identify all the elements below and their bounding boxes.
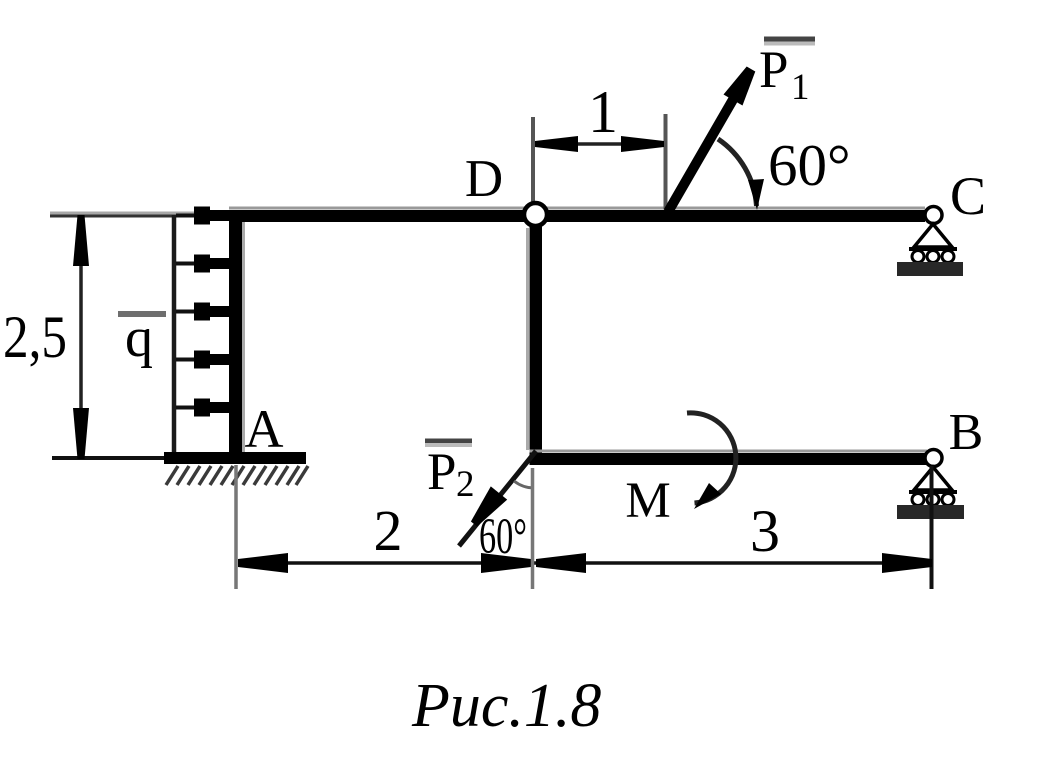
60 degree arc at P2: [514, 481, 534, 488]
svg-text:60°: 60°: [768, 132, 851, 198]
bottom dim arrow at A pointing left: [238, 553, 288, 573]
moment M arrowhead: [694, 483, 721, 509]
load arrow 2: [176, 262, 204, 266]
dimension 1 left arrowhead: [535, 136, 578, 152]
support C: pin circle: [925, 207, 942, 224]
svg-text:M: M: [625, 473, 670, 529]
svg-text:3: 3: [750, 498, 780, 564]
extension line above D for dimension 1: [531, 117, 535, 202]
svg-text:A: A: [245, 399, 284, 459]
svg-text:D: D: [465, 150, 503, 208]
dimension 1 right arrowhead: [621, 136, 664, 152]
label P1 with overbar: [764, 37, 815, 42]
svg-text:1: 1: [791, 67, 810, 108]
bottom dim arrow left of D pointing right: [481, 553, 531, 573]
ground hatching: [166, 466, 308, 485]
svg-text:Рис.1.8: Рис.1.8: [411, 672, 601, 740]
support B: base line: [909, 490, 957, 494]
dimension 2,5 upper arrowhead: [73, 215, 89, 266]
svg-text:1: 1: [588, 79, 618, 145]
svg-text:P: P: [427, 443, 456, 501]
svg-text:P: P: [759, 41, 788, 99]
60 degree arc at P1: [718, 139, 757, 206]
bottom dimension line: [238, 561, 932, 565]
right extension line for dimension 1: [664, 114, 668, 209]
distributed load line q: [172, 215, 177, 457]
ground bar at A: [164, 452, 306, 464]
force P2 arrow shaft: [459, 451, 536, 546]
support B: base plate: [897, 505, 964, 519]
label P2 with overbar: [425, 439, 472, 444]
dimension line 1: [535, 142, 664, 146]
support B: pin circle: [925, 450, 942, 467]
support C: base line: [909, 247, 957, 251]
arc arrowhead at P1: [748, 179, 764, 210]
moment M arc: [687, 413, 736, 503]
support C: triangle: [914, 224, 952, 247]
dimension 2,5 lower arrowhead: [73, 408, 89, 459]
support B: triangle: [914, 467, 952, 490]
svg-text:2: 2: [374, 498, 403, 563]
load arrow 5: [176, 406, 204, 410]
extension line through B support: [930, 466, 934, 589]
force P1 arrow: [668, 84, 742, 212]
svg-text:C: C: [950, 166, 986, 226]
load arrow 4: [176, 358, 204, 362]
svg-text:2: 2: [456, 464, 475, 505]
dimension line 2,5: [79, 218, 83, 458]
support B: rollers: [912, 494, 924, 506]
lower beam D-B: [530, 450, 928, 453]
hinge circle at D: [524, 203, 547, 226]
svg-text:B: B: [949, 404, 984, 461]
support C: base plate: [897, 262, 963, 276]
load arrow 3: [176, 310, 204, 314]
label q with overbar: [118, 311, 166, 317]
load arrow 1: [176, 214, 204, 218]
bottom extension line for dimension 2,5: [52, 456, 166, 460]
top beam A-D-C: [229, 207, 925, 210]
top extension line for dimension 2,5: [50, 212, 230, 215]
svg-text:2,5: 2,5: [3, 304, 67, 370]
column at A: [229, 210, 242, 454]
column D (vertical member): [530, 224, 543, 465]
extension line below D: [531, 468, 535, 589]
bottom dim arrow at B pointing right: [882, 553, 932, 573]
svg-text:q: q: [125, 307, 153, 369]
force P2 arrowhead: [471, 486, 507, 526]
bottom dim arrow right of D pointing left: [536, 553, 586, 573]
support C: rollers: [912, 251, 924, 263]
extension line below A: [234, 465, 238, 589]
